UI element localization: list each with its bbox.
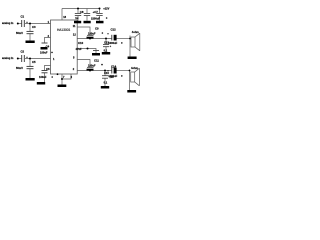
ground bar C7 (96, 21, 104, 24)
node value plus C14 (121, 75, 123, 77)
wire C3 shunt vertical (29, 24, 31, 32)
svg-text:analog in: analog in (2, 56, 14, 60)
svg-text:1000uF: 1000uF (108, 41, 117, 45)
svg-text:C2: C2 (21, 50, 25, 54)
wire NF1 pin2 (45, 38, 51, 43)
node zobel1 junction (105, 38, 107, 40)
wire C5 shunt vertical (29, 59, 31, 67)
wire input ch2 (18, 58, 22, 60)
wire IC ground pins (62, 74, 71, 79)
svg-text:47uF: 47uF (76, 47, 82, 51)
wire C2 to IC pin (25, 58, 51, 60)
wire C8 stub (77, 9, 79, 14)
svg-text:100uF: 100uF (39, 75, 47, 79)
ground bar C3 (26, 41, 35, 44)
capacitor C6 plates (42, 71, 48, 73)
node value plus C12 (121, 42, 123, 44)
capacitor C14 black plate (114, 68, 117, 74)
capacitor zobel2 plates (102, 76, 108, 79)
wire C7 stub (99, 9, 101, 14)
wire output ch2 (77, 70, 111, 72)
wire output ch1 pin12 (77, 38, 111, 40)
capacitor C14 plate (111, 68, 113, 74)
svg-text:5: 5 (73, 56, 75, 60)
capacitor C9 black plate (87, 37, 94, 39)
wire zobel ch1 (105, 39, 107, 45)
node shunt2 junction (29, 58, 31, 60)
capacitor C11 black plate (87, 69, 94, 71)
svg-text:1u: 1u (75, 16, 78, 20)
svg-text:1000uF: 1000uF (108, 74, 117, 78)
ground bar zobel1 (102, 52, 110, 55)
svg-text:4ohm: 4ohm (131, 66, 139, 70)
svg-text:11: 11 (73, 24, 76, 28)
svg-text:C12: C12 (111, 28, 117, 32)
capacitor C2 plates (22, 55, 25, 62)
ground bar speaker2 (127, 90, 136, 93)
capacitor C7 plates (96, 13, 102, 15)
wire C12 to speaker1 (117, 38, 131, 40)
wire Vcc pin to rail (61, 9, 63, 21)
svg-text:C10: C10 (78, 41, 84, 45)
IC U1 HA13001 body (51, 20, 78, 74)
capacitor C4 black plate (41, 47, 48, 50)
capacitor C8 plates (75, 13, 81, 15)
speaker SP1 (130, 33, 140, 51)
node shunt1 junction (29, 23, 31, 25)
wire mid cap stub (86, 9, 88, 14)
svg-text:C8: C8 (80, 10, 84, 14)
ground bar C8 (74, 21, 81, 24)
svg-text:2200uF: 2200uF (91, 16, 100, 20)
capacitor C9 plate (87, 34, 94, 36)
capacitor C10 plate (93, 50, 99, 52)
node speaker1 (129, 38, 131, 40)
svg-text:1: 1 (53, 57, 55, 61)
node value plus C4 (51, 52, 53, 54)
node value plus ch2 (101, 64, 103, 66)
wire C1 to IC pin1 (25, 23, 51, 25)
wire supply rail (62, 8, 100, 10)
wire C14 to speaker2 (117, 70, 130, 72)
ground bar speaker1 (128, 57, 137, 60)
svg-text:100uF: 100uF (40, 51, 48, 55)
node value plus C7 (106, 17, 108, 19)
wire ripple C10 (77, 49, 96, 51)
svg-text:50mV: 50mV (16, 66, 23, 70)
capacitor C5 plates (27, 66, 34, 68)
wire bootstrap ch2 (77, 60, 90, 68)
node input2 junction (17, 58, 19, 60)
svg-text:12: 12 (73, 32, 76, 36)
capacitor C12 black plate (114, 35, 117, 41)
node output2 junction (89, 70, 91, 72)
wire input ch1 (18, 23, 22, 25)
svg-text:50mV: 50mV (16, 31, 23, 35)
ground bar zobel2 (101, 86, 109, 89)
ground bar C10 (92, 53, 100, 56)
capacitor C4 plate (42, 42, 48, 44)
svg-text:C9: C9 (95, 27, 99, 31)
svg-text:+: + (110, 45, 112, 48)
svg-text:C1: C1 (21, 15, 25, 19)
node IC ground junction (61, 78, 63, 80)
svg-text:HA13001: HA13001 (57, 28, 71, 32)
svg-text:6: 6 (71, 75, 73, 79)
svg-text:+12V: +12V (103, 6, 109, 10)
ground bar IC (58, 85, 67, 88)
ground bar C5 (26, 78, 35, 81)
svg-text:4ohm: 4ohm (132, 30, 140, 34)
svg-text:C5: C5 (32, 60, 36, 64)
svg-text:7: 7 (63, 75, 65, 79)
node IC bottom edge dot (57, 73, 59, 75)
capacitor C11 plate (87, 66, 94, 68)
node value plus ch1 (102, 32, 104, 34)
svg-text:13: 13 (63, 15, 66, 19)
capacitor C1 plates (22, 20, 25, 27)
capacitor zobel1 plates (103, 44, 109, 46)
capacitor C3 plates (27, 31, 34, 33)
node zobel2 junction (104, 70, 106, 72)
node C10 junction (87, 48, 89, 50)
svg-text:C6: C6 (46, 67, 50, 71)
ground bar C6 (37, 82, 45, 85)
svg-text:analog in: analog in (2, 21, 14, 25)
wire bootstrap ch1 pin11 (77, 27, 90, 35)
speaker SP2 (130, 68, 140, 86)
node rail end junction (99, 8, 101, 10)
node speaker2 (129, 70, 131, 72)
svg-text:0.1: 0.1 (104, 80, 108, 84)
wire speaker2 ground (129, 84, 131, 90)
node input1 junction (17, 23, 19, 25)
ground bar mid (84, 21, 91, 24)
capacitor mid plates (84, 13, 90, 15)
svg-text:2: 2 (73, 67, 75, 71)
svg-text:C11: C11 (94, 59, 99, 63)
wire NF2 (45, 66, 51, 71)
node rail junction C8 (77, 8, 79, 10)
wire zobel ch2 (104, 71, 106, 76)
wire speaker1 ground (129, 48, 131, 57)
node value plus C6 (51, 76, 53, 78)
capacitor C12 plate (111, 35, 113, 41)
svg-text:C3: C3 (32, 25, 36, 29)
node output1 junction (89, 38, 91, 40)
svg-text:+: + (107, 32, 109, 35)
